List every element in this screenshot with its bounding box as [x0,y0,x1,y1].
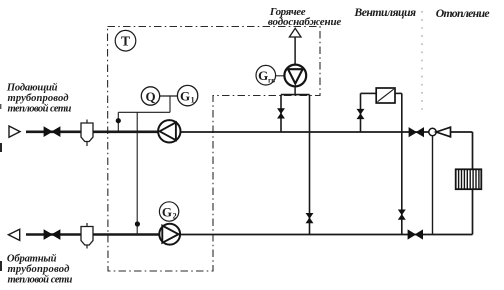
elevator impulse line to return [432,136,434,235]
pipe from arrow to HW pump [294,37,296,65]
Q-G1 connecting bar [160,95,178,97]
supply pipe (thick left segment) [26,131,162,134]
ventilation heater box [376,88,395,103]
svg-text:Q: Q [145,89,155,104]
hot water left drop pipe [280,95,282,132]
elevator (jet pump): circle + cone [429,128,436,135]
HW circulation pump [284,65,306,87]
supply inlet arrow [9,126,20,137]
svg-text:G: G [162,204,172,219]
valve on ventilation riser [357,109,364,119]
radiator riser down [472,132,474,235]
svg-text:тепловой сети: тепловой сети [8,104,72,115]
valve on return outlet [44,230,60,239]
svg-text:1: 1 [191,96,195,105]
svg-text:Вентиляция: Вентиляция [353,5,416,19]
ventilation return drop [395,92,402,94]
circle Q [141,87,159,105]
svg-text:Отопление: Отопление [436,6,490,20]
circle Gгв [256,65,276,85]
circle G1 [177,85,197,105]
radiator [456,169,482,189]
supply pipe (right segment) [178,131,430,133]
valve on supply inlet [44,127,60,136]
control line up to Q-G1 [169,95,171,112]
supply pump [158,120,180,142]
valve on return of heating [408,230,423,239]
hot water outlet arrow [289,28,301,37]
hot water right drop pipe [309,95,311,235]
dashed enclosure of heat point (dash-dot boundary) [108,27,321,272]
svg-text:T: T [121,34,130,49]
dotted separator between Вентиляция and Отопление [421,11,423,114]
circle T (heat meter) [115,30,136,51]
hot water header bar [281,94,310,96]
ventilation left riser [360,93,362,131]
return pump [159,224,180,245]
svg-text:гв: гв [268,77,275,85]
svg-text:тепловой сети: тепловой сети [8,275,73,286]
valve on ventilation return drop [399,210,406,220]
circle G2 [159,202,178,221]
svg-text:Обратный: Обратный [7,253,57,264]
return pipe (thick left segment) [26,233,163,236]
valve on hot water left drop [278,109,285,119]
svg-text:G: G [180,89,190,104]
bar Gгв to pump [276,75,285,77]
pipe from elevator to radiator riser [451,131,473,133]
svg-text:Подающий: Подающий [6,82,58,93]
return pipe (right segment) [177,234,473,236]
svg-text:водоснабжение: водоснабжение [268,16,342,28]
mud strainer on return [81,227,93,246]
control line down to return sensor [136,112,138,234]
svg-text:G: G [258,68,268,83]
mud strainer on supply [81,123,93,142]
return outlet arrow [8,229,19,240]
valve on hot water right drop [306,213,313,223]
pump outlet stub [294,87,296,95]
sensor stub on supply pipe with dot [117,112,119,132]
control line horizontal [118,111,170,113]
svg-text:2: 2 [173,212,177,221]
valve on supply before elevator [409,128,424,137]
